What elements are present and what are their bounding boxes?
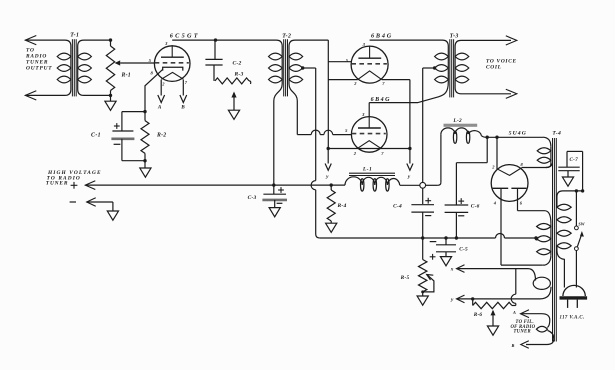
svg-text:R-6: R-6	[474, 312, 483, 318]
svg-text:C-5: C-5	[459, 247, 468, 253]
svg-text:8: 8	[150, 71, 153, 76]
svg-text:TO VOICE: TO VOICE	[486, 58, 517, 64]
svg-text:TUNER: TUNER	[514, 330, 531, 335]
svg-text:A: A	[157, 105, 162, 111]
svg-text:C-2: C-2	[233, 60, 242, 66]
svg-text:B: B	[180, 105, 185, 111]
svg-text:R-3: R-3	[234, 71, 244, 77]
svg-text:2: 2	[491, 165, 495, 170]
svg-text:5: 5	[149, 58, 152, 63]
svg-text:5: 5	[345, 128, 348, 133]
svg-text:y: y	[450, 297, 454, 303]
svg-text:OUTPUT: OUTPUT	[26, 66, 52, 72]
svg-text:6: 6	[520, 201, 523, 206]
svg-text:C-7: C-7	[570, 158, 579, 163]
svg-text:6C5GT: 6C5GT	[170, 33, 200, 40]
svg-text:7: 7	[381, 151, 384, 156]
svg-text:C-3: C-3	[248, 195, 257, 201]
svg-text:L-1: L-1	[362, 166, 372, 172]
svg-text:2: 2	[353, 81, 357, 86]
svg-text:3: 3	[362, 42, 366, 47]
svg-text:4: 4	[493, 201, 497, 206]
svg-text:T-1: T-1	[70, 32, 79, 38]
svg-text:7: 7	[185, 80, 188, 85]
svg-text:C-1: C-1	[91, 133, 101, 139]
svg-text:L-2: L-2	[452, 118, 462, 124]
svg-text:3: 3	[164, 41, 168, 46]
svg-text:2: 2	[353, 151, 357, 156]
svg-text:5U4G: 5U4G	[509, 130, 527, 136]
svg-text:TUNER: TUNER	[46, 181, 69, 187]
svg-text:COIL: COIL	[486, 65, 502, 71]
svg-text:T-2: T-2	[282, 34, 291, 40]
svg-text:A: A	[512, 310, 516, 315]
svg-text:x: x	[450, 267, 454, 273]
svg-text:R-4: R-4	[337, 203, 347, 209]
svg-text:3: 3	[361, 112, 365, 117]
svg-text:8: 8	[520, 162, 523, 167]
svg-text:C-4: C-4	[393, 203, 402, 209]
svg-text:T-3: T-3	[450, 34, 459, 40]
svg-text:R-5: R-5	[400, 275, 410, 281]
svg-text:R-1: R-1	[121, 73, 131, 79]
svg-text:R-2: R-2	[156, 133, 166, 139]
svg-text:117 V.A.C.: 117 V.A.C.	[560, 315, 585, 320]
svg-text:7: 7	[382, 81, 385, 86]
svg-text:2: 2	[161, 82, 165, 87]
svg-text:T-4: T-4	[552, 130, 561, 136]
svg-text:B: B	[511, 343, 515, 348]
svg-text:6B4G: 6B4G	[371, 33, 393, 40]
svg-text:5: 5	[346, 58, 349, 63]
svg-text:SW: SW	[578, 221, 584, 226]
svg-text:y: y	[325, 174, 329, 180]
svg-text:C-6: C-6	[471, 203, 480, 209]
svg-text:y: y	[407, 174, 411, 180]
